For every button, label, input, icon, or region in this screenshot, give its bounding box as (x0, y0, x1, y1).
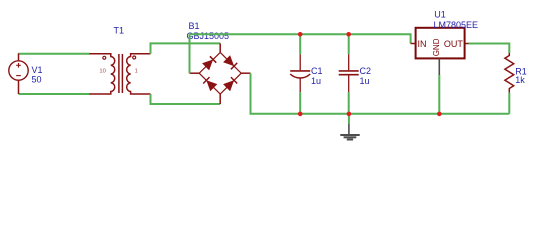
diode D2 (223, 55, 234, 66)
wire (151, 43, 221, 53)
svg-text:50: 50 (32, 75, 42, 85)
pin OUT wire (465, 43, 469, 45)
transformer T1 secondary winding (127, 54, 151, 94)
capacitor C2 (348, 34, 350, 54)
svg-text:OUT: OUT (444, 39, 464, 49)
svg-text:1u: 1u (360, 76, 370, 86)
svg-text:U1: U1 (434, 10, 446, 20)
svg-text:1: 1 (135, 68, 138, 74)
svg-text:IN: IN (418, 39, 427, 49)
wire top rail (190, 34, 411, 43)
pin IN wire (411, 43, 416, 45)
pin GND wire (438, 58, 440, 75)
wire (251, 73, 510, 114)
wire (469, 44, 510, 54)
ground (348, 124, 350, 134)
voltage source V1 (18, 53, 20, 61)
wire (19, 93, 91, 95)
svg-text:T1: T1 (114, 26, 125, 36)
svg-text:1u: 1u (311, 76, 321, 86)
wire (348, 114, 350, 124)
transformer T1 primary winding (90, 54, 115, 94)
wire (19, 53, 91, 55)
diode D3 (206, 80, 217, 91)
junction (437, 112, 442, 117)
svg-text:GBJ15005: GBJ15005 (187, 31, 230, 41)
capacitor C1 (299, 34, 301, 54)
wire (438, 75, 440, 114)
svg-text:10: 10 (99, 68, 105, 74)
diode D1 (202, 60, 213, 71)
junction (298, 32, 303, 37)
svg-text:LM7805EE: LM7805EE (434, 20, 479, 30)
wire (151, 94, 221, 104)
junction (346, 32, 351, 37)
bridge rectifier B1 outline (199, 52, 241, 94)
junction (347, 112, 352, 117)
svg-text:V1: V1 (32, 65, 43, 75)
svg-text:C2: C2 (360, 66, 372, 76)
svg-text:1k: 1k (515, 75, 525, 85)
junction (298, 112, 303, 117)
resistor R1 (505, 53, 514, 93)
wire (508, 93, 510, 114)
diode D4 (223, 80, 234, 91)
regulator U1 box (416, 28, 465, 59)
svg-text:GND: GND (432, 38, 441, 56)
svg-text:C1: C1 (311, 66, 323, 76)
wire node IN rail (189, 34, 191, 73)
svg-text:B1: B1 (189, 21, 200, 31)
transformer core (118, 54, 120, 93)
